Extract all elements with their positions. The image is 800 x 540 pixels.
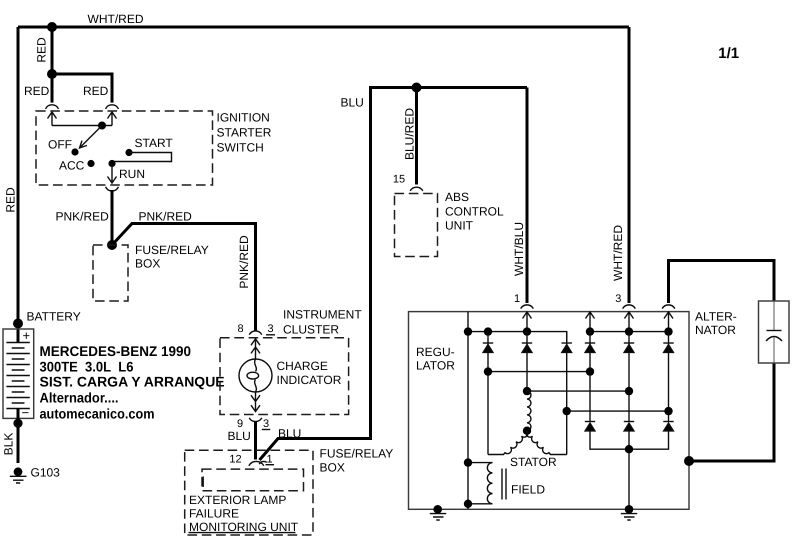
contact ACC	[87, 160, 94, 167]
wire BLK battery to ground	[17, 409, 20, 464]
svg-text:G103: G103	[31, 465, 61, 479]
diode D8	[624, 422, 634, 431]
contact OFF	[71, 148, 78, 155]
pin male arrow alternator internal	[586, 312, 595, 332]
svg-text:CLUSTER: CLUSTER	[283, 323, 339, 337]
node phase C right	[664, 407, 672, 415]
svg-text:NATOR: NATOR	[695, 323, 736, 337]
diode D4	[585, 343, 595, 352]
svg-text:−: −	[22, 405, 30, 420]
wire WHT/BLU to alternator pin 1	[526, 88, 529, 304]
node phase A left	[484, 367, 492, 375]
svg-text:FAILURE: FAILURE	[189, 506, 239, 520]
diode D5	[624, 343, 634, 352]
svg-text:BLU/RED: BLU/RED	[403, 108, 417, 160]
svg-text:FUSE/RELAY: FUSE/RELAY	[135, 243, 209, 257]
svg-text:1/1: 1/1	[718, 45, 739, 62]
node B+ output	[684, 456, 694, 466]
wire RED left main drop to battery	[17, 27, 20, 343]
wire BLU cluster to fuse box 2	[254, 421, 257, 460]
node regulator-rail	[464, 327, 472, 335]
svg-text:3: 3	[263, 418, 269, 430]
ABS control unit box	[395, 194, 438, 257]
node fuse/relay box tap	[107, 240, 117, 250]
svg-text:BOX: BOX	[320, 461, 345, 475]
svg-text:INSTRUMENT: INSTRUMENT	[283, 308, 362, 322]
fuse/relay box 1	[93, 245, 128, 301]
stator winding phase B coil	[527, 391, 531, 431]
connector female cluster pin 9	[249, 418, 262, 422]
node exciter rail D1	[484, 327, 492, 335]
pin male arrow cluster top (double chevron)	[251, 339, 260, 360]
svg-text:BLK: BLK	[2, 433, 16, 456]
wire WHT/RED to alternator pin 3	[628, 27, 631, 303]
pin male arrow cluster bottom (double chevron)	[251, 392, 260, 412]
pin male arrow right switch input	[108, 112, 117, 126]
capacitor C1	[766, 301, 782, 363]
charge indicator lamp	[239, 359, 272, 392]
svg-text:BLU: BLU	[278, 427, 301, 441]
node field bottom	[464, 500, 472, 508]
svg-text:12: 12	[229, 454, 241, 466]
wire BLU/RED to ABS	[415, 88, 418, 185]
node exciter rail D2	[523, 327, 531, 335]
node junction top bus / ignition feed	[47, 22, 57, 32]
svg-text:PNK/RED: PNK/RED	[56, 209, 110, 223]
svg-text:CONTROL: CONTROL	[445, 205, 504, 219]
svg-text:INDICATOR: INDICATOR	[277, 373, 342, 387]
svg-text:STATOR: STATOR	[510, 455, 557, 469]
switch lever arrow toward OFF	[80, 126, 103, 149]
diode D1	[483, 343, 493, 352]
stator winding right leg	[526, 431, 567, 455]
svg-text:RED: RED	[35, 37, 49, 63]
column D1 phase A	[487, 332, 489, 455]
stator winding left leg	[488, 431, 528, 455]
svg-text:WHT/RED: WHT/RED	[88, 12, 144, 26]
ignition starter switch box	[36, 111, 213, 185]
svg-text:BLU: BLU	[228, 429, 251, 443]
diode D7	[585, 422, 595, 431]
svg-text:3: 3	[267, 323, 273, 335]
wire WHT/RED top bus	[18, 26, 629, 29]
field core	[502, 469, 506, 500]
svg-text:BOX: BOX	[135, 257, 160, 271]
connector female pin 1	[259, 461, 267, 464]
svg-text:300TE 3.0L L6: 300TE 3.0L L6	[40, 359, 134, 375]
wire START loop	[112, 153, 172, 164]
wire RED ignition feed vertical	[51, 27, 54, 74]
node battery positive tap	[13, 319, 23, 329]
connector female cluster pin 8	[249, 331, 262, 335]
pin male arrow left switch input	[48, 112, 57, 126]
svg-text:BATTERY: BATTERY	[27, 310, 81, 324]
svg-text:PNK/RED: PNK/RED	[237, 235, 251, 289]
svg-text:BLU: BLU	[341, 96, 364, 110]
ground alternator left	[430, 505, 446, 520]
ground alternator right	[621, 505, 637, 520]
phase C rail	[567, 410, 669, 412]
contact RUN	[108, 160, 115, 167]
svg-text:RED: RED	[83, 84, 109, 98]
svg-text:RUN: RUN	[119, 167, 145, 181]
connector female switch output	[106, 187, 119, 191]
connector female right switch input	[106, 105, 119, 109]
svg-text:OFF: OFF	[48, 137, 72, 151]
svg-text:1: 1	[266, 454, 272, 466]
svg-text:SIST. CARGA Y ARRANQUE: SIST. CARGA Y ARRANQUE	[40, 374, 225, 390]
node phase A right	[586, 367, 594, 375]
svg-text:SWITCH: SWITCH	[217, 141, 264, 155]
contact START	[125, 149, 132, 156]
node phase B right	[625, 387, 633, 395]
relay contact bar	[202, 477, 204, 488]
svg-text:MERCEDES-BENZ 1990: MERCEDES-BENZ 1990	[40, 343, 192, 359]
wire PNK/RED from switch to fuse box node	[111, 190, 114, 245]
svg-text:REGU-: REGU-	[416, 345, 455, 359]
title text block	[40, 343, 225, 421]
node negative rail	[625, 445, 633, 453]
wire B+ to capacitor	[689, 363, 774, 461]
column D5	[628, 332, 630, 422]
regulator rail vertical	[467, 312, 469, 510]
connector female alternator pin 1	[521, 305, 534, 309]
wire RED split to both switch inputs	[52, 74, 112, 103]
svg-text:automecanico.com: automecanico.com	[40, 405, 155, 421]
diode D6	[663, 343, 673, 352]
svg-text:+: +	[23, 328, 31, 343]
svg-text:IGNITION: IGNITION	[217, 111, 270, 125]
exciter diode rail	[468, 332, 567, 343]
negative rail	[590, 431, 669, 509]
phase A rail	[488, 371, 590, 373]
connector female ABS pin 15	[410, 187, 423, 191]
wire PNK/RED to instrument cluster	[112, 224, 256, 331]
connector female pin 12	[249, 461, 264, 465]
fuse/relay box 2 outer	[185, 450, 313, 535]
node switch rotor pivot	[98, 122, 106, 130]
svg-text:EXTERIOR LAMP: EXTERIOR LAMP	[189, 493, 286, 507]
lamp filament	[255, 359, 257, 371]
monitoring unit inner box	[202, 469, 304, 491]
alternator case	[409, 312, 690, 510]
node positive rail D6	[664, 327, 672, 335]
pin male arrow alternator pin 1	[523, 312, 532, 332]
svg-text:PNK/RED: PNK/RED	[139, 209, 193, 223]
svg-text:CHARGE: CHARGE	[277, 359, 328, 373]
connector female alternator B+	[662, 305, 675, 309]
field coil	[487, 463, 492, 504]
connector female left switch input	[46, 105, 59, 109]
svg-text:8: 8	[237, 323, 243, 335]
pin male arrow alternator B+	[664, 312, 673, 332]
diode D3	[562, 343, 572, 352]
field coil leads	[468, 463, 493, 504]
column D6	[668, 332, 670, 422]
connector female alternator pin 3	[623, 305, 636, 309]
svg-text:ACC: ACC	[59, 158, 85, 172]
node phase C left	[563, 407, 571, 415]
node positive rail D4	[586, 327, 594, 335]
diode D2	[522, 343, 532, 352]
wire capacitor feed	[669, 261, 775, 304]
svg-text:START: START	[135, 136, 174, 150]
svg-text:UNIT: UNIT	[445, 219, 474, 233]
node phase B left	[523, 387, 531, 395]
svg-text:STARTER: STARTER	[217, 126, 272, 140]
svg-text:LATOR: LATOR	[416, 359, 455, 373]
svg-text:RED: RED	[4, 187, 18, 213]
svg-text:Alternador....: Alternador....	[40, 390, 119, 406]
switch output arrow RUN	[108, 164, 117, 184]
node stator center	[523, 427, 531, 435]
node battery negative	[13, 419, 22, 428]
battery plates	[6, 343, 29, 409]
svg-text:ALTER-: ALTER-	[695, 310, 737, 324]
wire BLU diagonal up to bus	[260, 88, 528, 461]
wire switch input link	[52, 125, 112, 127]
svg-text:FIELD: FIELD	[511, 483, 545, 497]
phase B rail	[527, 390, 629, 392]
diode D9	[663, 422, 673, 431]
pin male arrow alternator pin 3	[625, 312, 634, 332]
svg-text:WHT/BLU: WHT/BLU	[512, 222, 526, 276]
node field top	[464, 458, 472, 466]
column D3 phase C	[566, 332, 568, 455]
column D2 phase B	[526, 332, 528, 392]
node BLU/RED tap	[412, 83, 422, 93]
svg-text:RED: RED	[24, 84, 50, 98]
instrument cluster box	[220, 338, 349, 415]
capacitor case	[759, 301, 790, 363]
svg-text:15: 15	[393, 174, 405, 186]
svg-text:3: 3	[615, 293, 621, 305]
node junction ignition feed split	[47, 69, 57, 79]
column D4	[589, 332, 591, 422]
battery	[3, 328, 34, 420]
svg-text:FUSE/RELAY: FUSE/RELAY	[320, 446, 394, 460]
svg-text:1: 1	[514, 293, 520, 305]
ground G103	[10, 467, 27, 483]
underline MONITORING UNIT	[189, 532, 296, 534]
svg-text:ABS: ABS	[445, 190, 469, 204]
node positive rail D5	[625, 327, 633, 335]
positive diode rail	[590, 331, 669, 333]
svg-text:WHT/RED: WHT/RED	[611, 225, 625, 281]
